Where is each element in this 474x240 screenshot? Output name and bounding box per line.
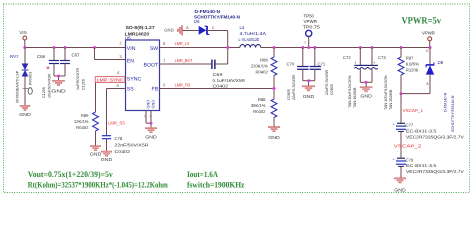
svg-text:C0805: C0805 xyxy=(287,89,291,100)
svg-text:C1206: C1206 xyxy=(82,79,86,90)
svg-text:22uF/6.3V/X5R: 22uF/6.3V/X5R xyxy=(292,74,296,100)
svg-text:1: 1 xyxy=(304,41,306,45)
svg-text:4.7uH/1.4A: 4.7uH/1.4A xyxy=(240,31,267,36)
svg-text:RV7: RV7 xyxy=(10,54,19,59)
svg-text:L-VLS4012E: L-VLS4012E xyxy=(239,37,260,42)
svg-text:GND: GND xyxy=(303,94,315,99)
svg-text:SF0603EA470-LSP: SF0603EA470-LSP xyxy=(16,70,20,103)
svg-text:TP0.75: TP0.75 xyxy=(303,25,321,30)
svg-text:SCHOTTKY/FM140-N: SCHOTTKY/FM140-N xyxy=(451,95,455,132)
svg-text:VPWR=5v: VPWR=5v xyxy=(402,15,442,26)
svg-text:Iout=1.6A: Iout=1.6A xyxy=(187,170,218,179)
svg-text:C0805: C0805 xyxy=(330,84,334,95)
svg-text:TAN-30uF/10V/20%: TAN-30uF/10V/20% xyxy=(348,75,352,108)
svg-text:D-FM140-N: D-FM140-N xyxy=(195,9,221,14)
svg-text:C68: C68 xyxy=(37,54,45,59)
svg-text:C69: C69 xyxy=(213,72,224,77)
svg-text:C67: C67 xyxy=(72,53,80,58)
svg-text:TAN-362B/B: TAN-362B/B xyxy=(389,89,393,110)
svg-text:RV0603: RV0603 xyxy=(29,72,33,85)
svg-text:GND: GND xyxy=(151,100,156,109)
svg-text:C: C xyxy=(426,48,429,53)
svg-text:VEC2R7335QG/3.3F/2.7V: VEC2R7335QG/3.3F/2.7V xyxy=(406,169,464,174)
svg-text:220K/1%: 220K/1% xyxy=(251,64,268,69)
svg-text:1uF/50V/X7R: 1uF/50V/X7R xyxy=(76,68,80,90)
svg-text:39K/1%: 39K/1% xyxy=(251,103,266,108)
svg-text:LMR_SYNC: LMR_SYNC xyxy=(97,77,124,82)
svg-text:BOOT: BOOT xyxy=(143,63,159,69)
svg-text:R87: R87 xyxy=(406,55,414,60)
svg-text:fswitch=1900KHz: fswitch=1900KHz xyxy=(187,181,245,190)
svg-text:C73: C73 xyxy=(378,55,386,60)
svg-text:D-FM140-N: D-FM140-N xyxy=(444,92,448,112)
svg-text:VEC2R7335QG/3.3F/2.7V: VEC2R7335QG/3.3F/2.7V xyxy=(406,134,464,139)
svg-text:TAN-100uF/10V/20%: TAN-100uF/10V/20% xyxy=(384,75,388,110)
svg-text:GND: GND xyxy=(90,151,102,156)
svg-text:VSCAP_2: VSCAP_2 xyxy=(394,144,422,149)
svg-text:LMR_LX: LMR_LX xyxy=(175,41,190,46)
svg-text:FB: FB xyxy=(152,86,159,92)
svg-text:C79: C79 xyxy=(406,158,414,163)
svg-text:GND: GND xyxy=(164,28,173,33)
svg-text:EC-8X11-3.5: EC-8X11-3.5 xyxy=(406,128,437,133)
svg-text:SW: SW xyxy=(150,46,158,52)
svg-text:D8: D8 xyxy=(438,60,444,65)
svg-text:SCHOTTKY/FM140-N: SCHOTTKY/FM140-N xyxy=(194,15,240,20)
svg-text:SYNC: SYNC xyxy=(127,76,142,82)
svg-text:VPWR: VPWR xyxy=(304,19,318,24)
svg-text:Rt(Kohm)=32537*1900KHz*(-1.045: Rt(Kohm)=32537*1900KHz*(-1.045)=12.2Kohm xyxy=(28,181,168,190)
svg-text:EC-8X11-3.5: EC-8X11-3.5 xyxy=(406,163,437,168)
svg-text:TAN-362B/B: TAN-362B/B xyxy=(353,87,357,108)
svg-text:R1206: R1206 xyxy=(406,67,419,72)
svg-text:A: A xyxy=(426,81,429,86)
svg-text:C0402: C0402 xyxy=(115,149,131,154)
svg-text:VSCAP_1: VSCAP_1 xyxy=(403,108,424,113)
svg-text:22uF/6.3V/X5R: 22uF/6.3V/X5R xyxy=(325,69,329,95)
svg-text:+: + xyxy=(354,61,356,65)
svg-text:22nF/50V/X5R: 22nF/50V/X5R xyxy=(115,143,149,148)
svg-text:C0402: C0402 xyxy=(213,84,229,89)
svg-text:C: C xyxy=(212,25,215,30)
svg-text:C70: C70 xyxy=(287,62,295,67)
svg-text:SS: SS xyxy=(127,86,134,92)
svg-text:6.8/5%: 6.8/5% xyxy=(406,61,419,66)
svg-text:GND: GND xyxy=(360,94,372,99)
svg-text:C1206: C1206 xyxy=(42,87,46,98)
svg-text:Vout=0.75x(1+220/39)=5v: Vout=0.75x(1+220/39)=5v xyxy=(28,170,114,179)
svg-text:EN: EN xyxy=(127,58,134,64)
svg-text:SO-8(9)-1.27: SO-8(9)-1.27 xyxy=(126,25,156,30)
svg-text:VIN: VIN xyxy=(127,46,136,52)
svg-text:D6: D6 xyxy=(194,19,200,24)
svg-text:C72: C72 xyxy=(343,55,351,60)
svg-text:L4: L4 xyxy=(240,25,245,30)
svg-text:0.1uF/16V/X5R: 0.1uF/16V/X5R xyxy=(213,78,246,83)
svg-text:GND: GND xyxy=(101,157,113,162)
svg-text:GND: GND xyxy=(19,112,31,117)
svg-text:LMR_FB: LMR_FB xyxy=(175,83,190,88)
svg-text:C78: C78 xyxy=(115,136,123,141)
svg-text:GND: GND xyxy=(145,134,157,139)
svg-text:10uF/50V/X5R: 10uF/50V/X5R xyxy=(48,73,52,98)
svg-text:VPWR: VPWR xyxy=(422,31,435,36)
svg-text:R0402: R0402 xyxy=(255,70,268,75)
svg-text:LMR_BST: LMR_BST xyxy=(175,58,193,63)
svg-text:C71: C71 xyxy=(318,62,326,67)
svg-text:VIN: VIN xyxy=(19,30,26,35)
svg-text:R86: R86 xyxy=(260,58,268,63)
svg-text:R0402: R0402 xyxy=(76,125,89,130)
svg-text:C77: C77 xyxy=(406,122,414,127)
svg-text:R89: R89 xyxy=(81,113,89,118)
svg-text:GND: GND xyxy=(51,88,66,93)
svg-text:R88: R88 xyxy=(258,97,266,102)
svg-text:GND: GND xyxy=(268,135,280,140)
svg-text:LMR_SS: LMR_SS xyxy=(108,120,125,125)
svg-text:12K/1%: 12K/1% xyxy=(74,119,89,124)
svg-text:R0402: R0402 xyxy=(253,109,266,114)
svg-text:+: + xyxy=(373,61,375,65)
svg-text:A: A xyxy=(186,25,189,30)
svg-text:TP50: TP50 xyxy=(304,14,315,19)
svg-text:U6: U6 xyxy=(125,35,131,40)
svg-text:GND: GND xyxy=(394,187,406,192)
